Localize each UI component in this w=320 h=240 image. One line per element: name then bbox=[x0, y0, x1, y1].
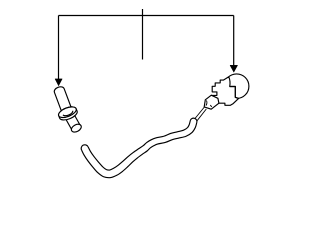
cable end cap at free end bbox=[81, 145, 88, 150]
leader arrow left head bbox=[55, 79, 62, 86]
sensor lead wire bbox=[195, 107, 206, 121]
leader arrow left line bbox=[58, 16, 60, 80]
leader tick center bbox=[142, 9, 144, 60]
leader arrow right head bbox=[230, 65, 238, 72]
cable harness bbox=[81, 118, 197, 178]
cable end cap at connector side bbox=[190, 118, 197, 122]
connector plug bbox=[204, 95, 219, 109]
connector inner arc bbox=[206, 100, 207, 105]
plug lower cylinder bbox=[63, 110, 82, 133]
leader arrow right bbox=[230, 16, 238, 73]
connector inner tick bbox=[210, 105, 212, 107]
leader arrow right line bbox=[233, 16, 235, 67]
cable lower edge bbox=[82, 122, 197, 177]
plug collar hole bbox=[63, 111, 74, 117]
sensor bracket body bbox=[211, 77, 238, 106]
cable upper edge bbox=[88, 120, 190, 170]
lead wire line 1 bbox=[195, 107, 204, 119]
sensor inner step line bbox=[230, 87, 239, 99]
plug upper cylinder bbox=[53, 85, 72, 114]
plug collar bbox=[57, 105, 79, 122]
plug collar rim bbox=[57, 105, 79, 122]
sensor (right part) bbox=[204, 74, 249, 109]
cable body fill bbox=[81, 118, 197, 178]
plug (left part) bbox=[53, 85, 82, 133]
leader arrow left bbox=[55, 16, 62, 86]
plug collar face bbox=[57, 105, 78, 120]
lead wire line 2 bbox=[197, 109, 206, 121]
sensor head circle bbox=[224, 74, 249, 99]
leader line horizontal bbox=[59, 15, 234, 17]
plug tip cap bbox=[70, 123, 83, 134]
